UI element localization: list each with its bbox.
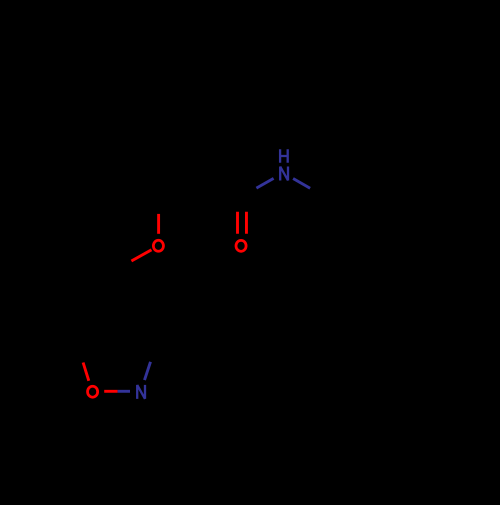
node: amide nitrogen N label [280,167,288,181]
node: amide N-H hydrogen H label [280,149,288,163]
wire: isoxazole O1-C5 bond (O half, red diagonal) [83,363,89,381]
wire: amide N-C bond (N half, blue diagonal to right substituent) [293,179,310,189]
wire: isoxazole O1-N2 bond (N half, blue horizontal) [118,390,130,393]
wire: ether O-CH2 bond (O half, diagonal red) [131,250,151,261]
wire: isoxazole O1-N2 bond (O half, red horizontal) [104,390,117,393]
wire: amide C-N bond (N half, blue diagonal to carbonyl C) [256,178,273,188]
node: ether oxygen O label [153,240,163,251]
node: carbonyl oxygen O label [236,240,246,251]
wire: isoxazole N2-C3 bond (N half, blue diagonal) [145,362,151,380]
node: isoxazole nitrogen N2 label [137,385,145,399]
node: isoxazole oxygen O1 label [88,386,98,397]
wire: carbonyl C=O double bond (O halves, two red lines) [238,212,247,234]
wire: ether C1-O bond (O half, vertical red) [157,214,160,234]
